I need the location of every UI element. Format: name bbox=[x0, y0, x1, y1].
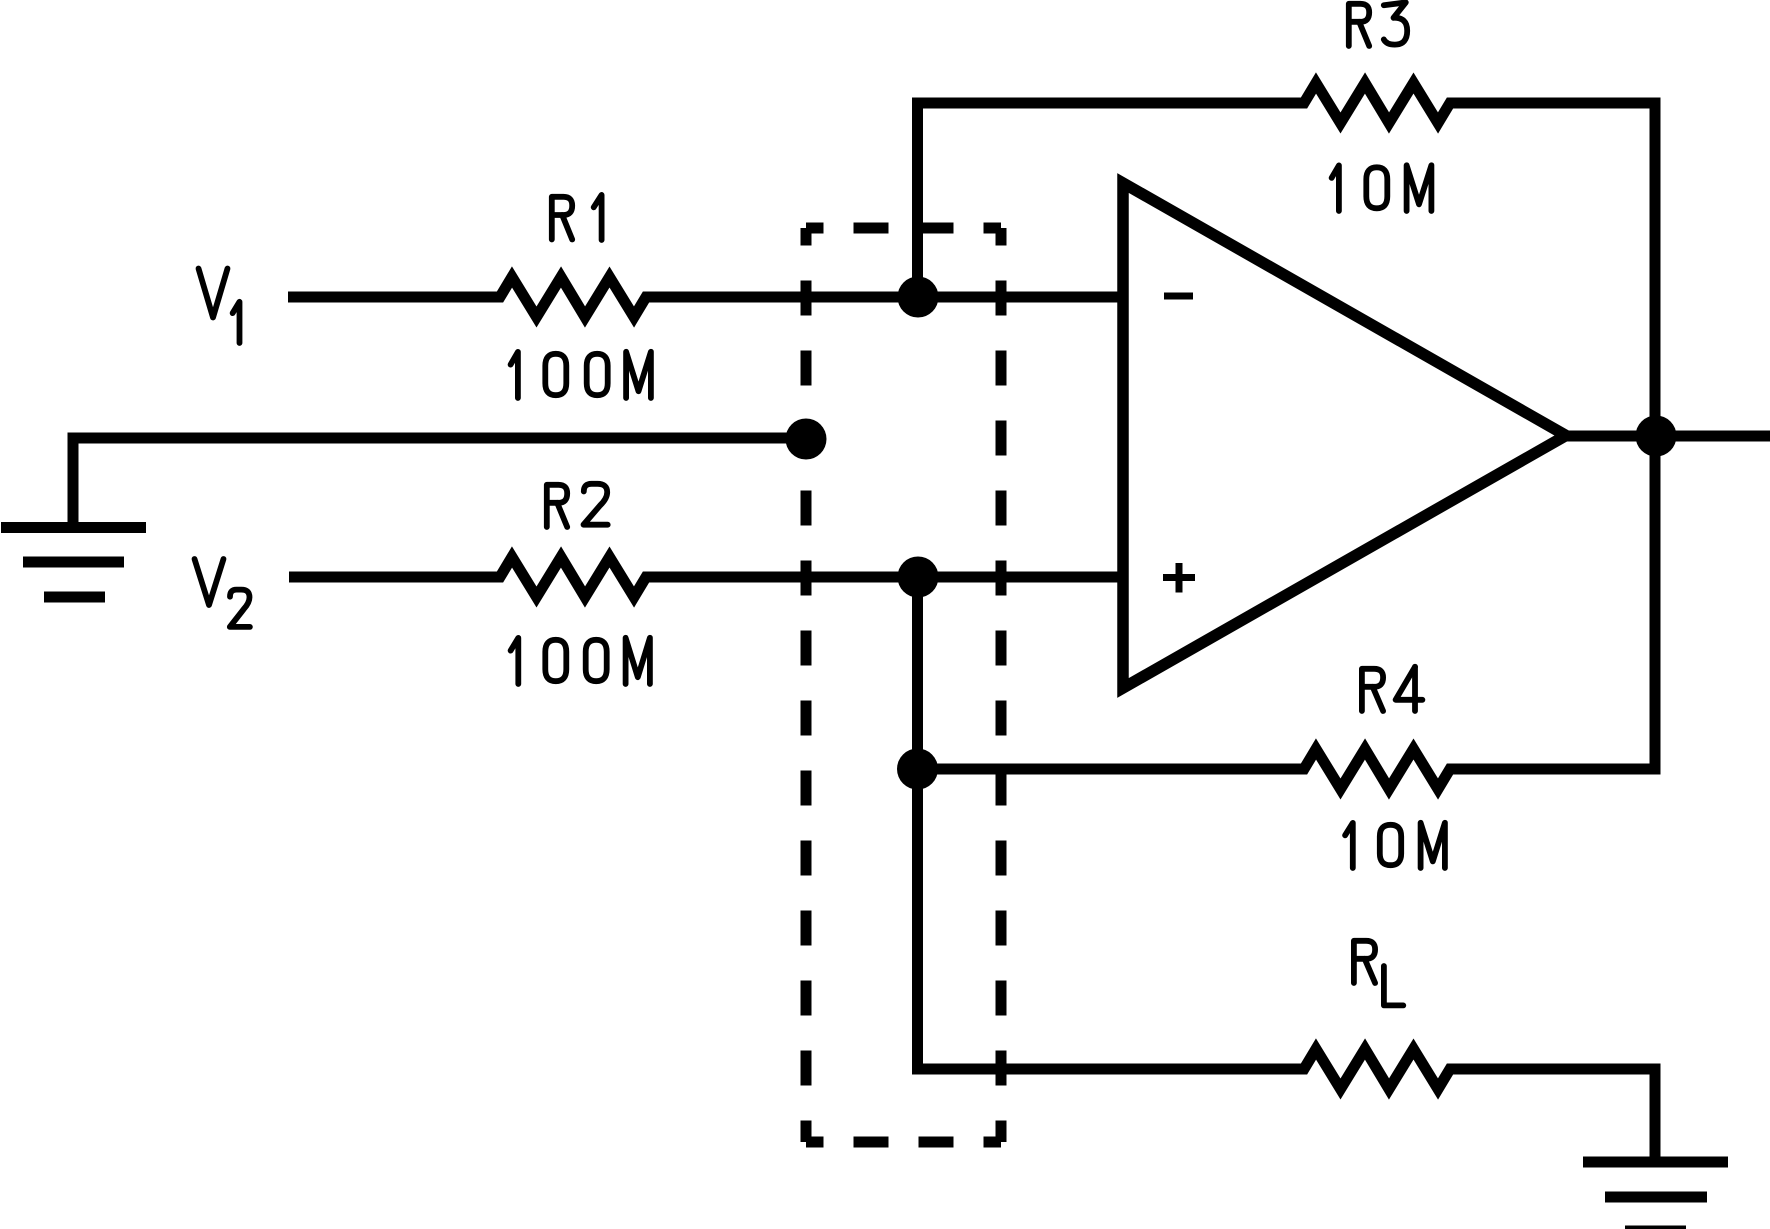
label RL bbox=[1354, 941, 1403, 1006]
wire R4 right bbox=[1450, 764, 1661, 775]
guard box left dashed edge bbox=[801, 228, 812, 1142]
guard box top dashed edge bbox=[806, 223, 1001, 234]
label R1 bbox=[552, 195, 602, 240]
wire RL right bbox=[1450, 1064, 1661, 1075]
op-amp non-inverting pin marker bbox=[1163, 563, 1195, 593]
wire inverting node to op-amp bbox=[918, 292, 1123, 303]
label V1 bbox=[199, 269, 240, 344]
node guard ground junction bbox=[786, 419, 827, 460]
wire R3 left bbox=[912, 98, 1304, 109]
wire right rail (R3 to output to R4) bbox=[1650, 98, 1661, 775]
ground symbol right bbox=[1583, 1162, 1728, 1229]
label R2 bbox=[547, 484, 608, 527]
node non-inverting input junction bbox=[898, 557, 939, 598]
wire V1 lead-in bbox=[288, 292, 500, 303]
wire non-inverting node to op-amp bbox=[918, 572, 1123, 583]
wire RL to ground bbox=[1650, 1069, 1661, 1162]
wire non-inverting node down to RL corner bbox=[912, 577, 923, 1075]
label R3 value 10M bbox=[1332, 165, 1432, 211]
ground symbol left bbox=[1, 528, 146, 598]
node inverting input junction bbox=[898, 277, 939, 318]
wire output bbox=[1556, 431, 1770, 442]
guard box right dashed edge bbox=[996, 228, 1007, 1142]
resistor RL bbox=[1298, 1049, 1456, 1089]
node R4 guard junction bbox=[897, 749, 938, 790]
wire V2 lead-in bbox=[289, 572, 500, 583]
resistor R4 bbox=[1298, 749, 1456, 789]
resistor R3 bbox=[1298, 83, 1456, 123]
wire R3 right bbox=[1450, 98, 1661, 109]
wire R1 to inverting node bbox=[646, 292, 918, 303]
label R4 bbox=[1362, 667, 1423, 711]
node output junction bbox=[1636, 416, 1677, 457]
wire RL left bbox=[912, 1064, 1304, 1075]
label R2 value 100M bbox=[511, 638, 650, 684]
label R1 value 100M bbox=[511, 352, 651, 398]
label V2 bbox=[195, 559, 250, 627]
wire ground to guard node bbox=[73, 438, 806, 527]
label R3 bbox=[1349, 2, 1407, 46]
label R4 value 10M bbox=[1345, 823, 1445, 868]
resistor R2 bbox=[494, 557, 652, 597]
guard box bottom dashed edge bbox=[806, 1137, 1001, 1148]
op-amp inverting pin marker bbox=[1164, 293, 1193, 300]
wire left rail R3 to inverting node bbox=[912, 98, 923, 298]
wire R4 left bbox=[912, 764, 1304, 775]
wire R2 to non-inverting node bbox=[646, 572, 918, 583]
resistor R1 bbox=[494, 277, 652, 317]
op-amp U1 bbox=[1123, 183, 1566, 688]
